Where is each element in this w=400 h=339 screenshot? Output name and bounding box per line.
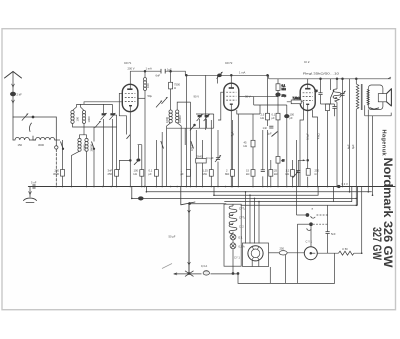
- heater resistor CF7-2: [229, 215, 237, 225]
- svg-text:kΩ: kΩ: [261, 116, 264, 120]
- wire col297 down: [296, 224, 298, 283]
- resistor box col327: [326, 104, 330, 111]
- svg-text:0,1 μF: 0,1 μF: [206, 156, 214, 160]
- svg-text:5nF: 5nF: [331, 232, 336, 236]
- heater resistor Cl2: [229, 224, 237, 234]
- svg-text:30 V: 30 V: [245, 95, 251, 99]
- svg-text:kΩ: kΩ: [134, 172, 137, 176]
- svg-text:36000: 36000: [89, 144, 93, 152]
- connector circle: [55, 146, 58, 149]
- wire col245: [245, 192, 247, 244]
- wire tube2 right leg: [237, 110, 241, 114]
- wire col202: [202, 140, 204, 187]
- selector row2: [297, 223, 309, 225]
- wire plugs feed: [297, 214, 306, 216]
- wire tube3 right leg: [313, 110, 318, 187]
- svg-text:50μ: 50μ: [148, 94, 153, 98]
- trimmer Ct3: [95, 121, 101, 128]
- heater box: [224, 204, 241, 266]
- wire col287: [286, 105, 288, 187]
- wire grid row y128: [167, 114, 214, 145]
- resistor box col292: [291, 170, 295, 177]
- wire right column: [55, 117, 57, 146]
- capacitor 2kF blob: [10, 92, 15, 96]
- sub bus 2: [214, 187, 318, 196]
- wire link y104: [77, 103, 113, 105]
- speaker return wire: [365, 105, 392, 116]
- wire coil bottoms link: [73, 123, 117, 127]
- transformer primary: [356, 84, 359, 109]
- resistor box 01: [276, 113, 280, 120]
- svg-text:100: 100: [75, 117, 79, 122]
- wire primary: [355, 79, 357, 206]
- resistor box cath: [306, 169, 310, 176]
- plug dot b: [310, 223, 313, 226]
- svg-text:C Y 1: C Y 1: [306, 240, 313, 244]
- resistor box col141: [140, 170, 144, 177]
- wire col156: [155, 140, 157, 187]
- wire col162: [161, 132, 163, 187]
- node junction: [32, 116, 34, 118]
- wire barretter out: [317, 252, 338, 254]
- svg-text:CF72: CF72: [225, 61, 233, 65]
- wire col296 down: [296, 187, 298, 216]
- switch S5: [331, 90, 335, 98]
- junction dots psu: [237, 273, 239, 275]
- svg-text:5 nF: 5 nF: [31, 181, 37, 185]
- svg-text:0,5μF: 0,5μF: [190, 144, 194, 151]
- svg-text:250: 250: [315, 169, 320, 173]
- svg-text:1,25: 1,25: [203, 169, 209, 173]
- rectifier pins: [252, 247, 259, 260]
- svg-text:Cl 2: Cl 2: [239, 225, 244, 229]
- svg-text:3000: 3000: [38, 143, 44, 147]
- resistor box col63: [61, 170, 65, 177]
- resistor box 1k horiz: [291, 100, 301, 104]
- svg-text:1 mA: 1 mA: [239, 71, 245, 75]
- wire col238: [237, 114, 239, 187]
- resistor box 45k mid: [251, 140, 255, 147]
- plug dot a: [306, 214, 309, 217]
- svg-text:MΩ: MΩ: [282, 87, 286, 91]
- wire zig regl: [336, 79, 338, 187]
- pot arrow on H2: [218, 74, 222, 77]
- wire lower coil bottoms: [72, 151, 87, 186]
- trimmer IF a: [156, 101, 162, 108]
- svg-text:1nF: 1nF: [263, 126, 268, 130]
- switch S6: [161, 141, 164, 149]
- svg-text:Cl 2: Cl 2: [304, 60, 310, 64]
- switch lever osc: [181, 187, 195, 205]
- wire col103: [103, 104, 105, 186]
- cathode bypass corner: [298, 160, 305, 186]
- electrolytic blob on sub bus 3: [138, 197, 143, 200]
- coil L2a: [78, 138, 81, 151]
- rectifier tube CY1: [248, 246, 263, 261]
- wire between coils: [29, 139, 35, 141]
- wire col311 to barretter: [310, 224, 312, 247]
- resistor box 2,5k: [266, 113, 270, 120]
- coil L2b: [85, 138, 88, 151]
- resistor horiz box: [196, 159, 207, 164]
- lamp E1: [230, 234, 236, 240]
- capacitor cath plates: [296, 171, 300, 173]
- speaker driver: [378, 94, 386, 102]
- svg-text:90 V: 90 V: [194, 95, 200, 99]
- resistor box 7500: [169, 82, 173, 89]
- wire bottom corner: [238, 253, 335, 283]
- capacitor 1nF: [269, 126, 273, 128]
- wire plug dashed a: [317, 214, 328, 216]
- wire tube2 g2 line: [241, 114, 261, 140]
- wire col292: [292, 160, 294, 187]
- svg-text:0,1: 0,1: [149, 169, 153, 173]
- svg-text:250: 250: [108, 172, 113, 176]
- switch S1: [61, 142, 64, 149]
- svg-text:4μF: 4μF: [351, 144, 355, 149]
- wire coil tops: [73, 104, 85, 110]
- svg-text:0,1μF: 0,1μF: [306, 133, 310, 140]
- capacitor 5nF psu: [326, 232, 330, 234]
- wire tube3 cathode: [307, 111, 309, 187]
- wire col190: [190, 102, 192, 186]
- coil L1b: [82, 110, 85, 123]
- capacitor 100pF blob: [285, 115, 290, 118]
- sub bus 3: [132, 187, 356, 199]
- svg-text:2μF: 2μF: [267, 132, 272, 136]
- trimmer cath: [293, 171, 299, 178]
- speaker cone: [387, 88, 392, 106]
- svg-text:Ω: Ω: [174, 86, 176, 90]
- svg-text:6,3 V: 6,3 V: [342, 182, 348, 186]
- resistor box col278 mid: [276, 157, 280, 164]
- capacitor blob 25u: [276, 93, 281, 96]
- svg-text:2,5: 2,5: [261, 113, 265, 117]
- rectifier socket box CY1: [243, 243, 269, 267]
- svg-text:1,2: 1,2: [286, 169, 290, 173]
- feedback loop: [117, 160, 131, 169]
- main ground bus: [28, 186, 395, 188]
- resistor box col253 low: [251, 170, 255, 177]
- speaker contact: [369, 108, 379, 110]
- svg-text:E 1: E 1: [239, 236, 244, 240]
- trimmer C ant: [22, 114, 28, 121]
- trimmer Ct2: [110, 113, 114, 115]
- wire tube1 right leg: [138, 97, 145, 99]
- wire coil row to switch: [56, 139, 61, 141]
- svg-text:kΩ: kΩ: [286, 172, 289, 176]
- svg-text:100: 100: [290, 113, 295, 117]
- sub bus 4: [225, 187, 352, 202]
- svg-text:pF: pF: [290, 116, 293, 120]
- mains lever faint: [162, 264, 172, 269]
- antenna: [5, 72, 22, 79]
- wire mains row: [174, 273, 238, 275]
- svg-text:0,1: 0,1: [282, 84, 286, 88]
- capacitor 0,1: [216, 158, 220, 160]
- svg-text:μF: μF: [181, 172, 185, 176]
- wire to barretter: [287, 252, 304, 254]
- wire col249: [249, 195, 251, 243]
- wire col342: [342, 79, 344, 187]
- capacitor c334: [332, 107, 336, 109]
- wire IF b: [177, 102, 190, 186]
- resistor box col232: [231, 170, 235, 177]
- wire col211: [210, 120, 212, 187]
- resistor zig regl: [333, 89, 341, 99]
- wire coil100: [144, 71, 146, 186]
- svg-text:100: 100: [146, 83, 150, 88]
- svg-text:μF: μF: [149, 172, 153, 176]
- svg-text:kΩ: kΩ: [246, 172, 249, 176]
- resistor box 01M: [276, 84, 280, 91]
- svg-text:0,3 A: 0,3 A: [201, 264, 207, 268]
- coil 3000: [33, 137, 56, 140]
- svg-text:1000: 1000: [87, 116, 91, 122]
- svg-text:100: 100: [134, 169, 139, 173]
- svg-text:0,2 A: 0,2 A: [239, 244, 245, 248]
- wire col253 low: [252, 147, 254, 187]
- trimmer Ct1: [102, 113, 106, 115]
- svg-text:Regl.35kΩ/50…10: Regl.35kΩ/50…10: [303, 72, 340, 76]
- svg-text:4μF: 4μF: [346, 144, 350, 149]
- wire col170: [167, 71, 171, 186]
- cap 3nF in bus: [33, 184, 35, 188]
- svg-text:327 GW: 327 GW: [370, 227, 383, 260]
- wire col372: [372, 116, 374, 195]
- pot wiper blob: [136, 159, 140, 162]
- heater resistor CF7-1: [229, 206, 237, 216]
- svg-text:45: 45: [244, 141, 247, 145]
- tube CF7 II: [224, 83, 239, 110]
- svg-text:7,5kΩ: 7,5kΩ: [293, 96, 300, 100]
- capacitor col262: [262, 130, 264, 187]
- junction dots on bus: [56, 186, 58, 188]
- svg-text:2 kF: 2 kF: [17, 93, 23, 97]
- svg-text:25μ: 25μ: [282, 94, 287, 98]
- svg-text:CF7₂: CF7₂: [239, 216, 245, 220]
- wire top row: [13, 116, 56, 118]
- wire tube2 g2 out: [239, 96, 254, 98]
- svg-text:Ω: Ω: [315, 172, 317, 176]
- resistor U50 zigzag: [339, 251, 354, 255]
- wire col216 cap col: [217, 130, 219, 187]
- wire tube2 top: [230, 75, 232, 83]
- wire col334: [328, 104, 335, 116]
- svg-text:6nF: 6nF: [156, 74, 161, 78]
- capacitor 6nF: [161, 69, 165, 74]
- wire H2b anode line right: [269, 77, 391, 79]
- svg-text:7μA: 7μA: [230, 131, 234, 136]
- wire rect out right: [269, 252, 280, 254]
- wire antenna lead: [12, 72, 14, 118]
- resistor box col188: [186, 170, 190, 177]
- svg-text:1 mA: 1 mA: [146, 67, 152, 71]
- wire lower coil tops: [80, 123, 87, 138]
- wire tube3 top: [307, 79, 309, 84]
- junction dots sub-bus: [146, 191, 148, 193]
- switch S4: [272, 132, 278, 137]
- wire osc coil top: [84, 102, 122, 105]
- heater line right of box: [241, 187, 358, 206]
- IF coil a: [169, 110, 172, 123]
- wire col278: [277, 97, 279, 187]
- svg-text:250: 250: [55, 169, 60, 173]
- wire col186: [185, 75, 187, 186]
- svg-text:15: 15: [246, 169, 249, 173]
- wire grid link: [112, 115, 116, 187]
- plug hook a: [311, 216, 315, 218]
- wire col196: [195, 130, 197, 187]
- sub bus 1: [146, 187, 371, 192]
- wire U50 to col361: [354, 187, 362, 254]
- svg-text:CF71: CF71: [124, 61, 132, 65]
- junction 6,3V: [338, 185, 341, 188]
- wire tube2 cathode: [230, 111, 232, 187]
- wire col112: [111, 104, 113, 186]
- svg-text:4 kΩ: 4 kΩ: [317, 133, 321, 139]
- wire joint 104: [321, 103, 331, 105]
- wire tube3 left leg: [300, 110, 303, 187]
- wire heater chain: [232, 204, 234, 234]
- svg-text:CF7₁: CF7₁: [239, 207, 245, 211]
- wire H2 anode line: [206, 75, 269, 130]
- svg-text:2μ: 2μ: [315, 89, 318, 93]
- coil L1a: [71, 110, 74, 123]
- IF coil b: [176, 110, 179, 123]
- tube2 grid side lead: [218, 92, 224, 120]
- svg-text:3nF: 3nF: [108, 169, 113, 173]
- switch S2: [92, 142, 95, 149]
- ground: [24, 198, 37, 200]
- svg-text:CY 1: CY 1: [234, 256, 240, 260]
- speaker frame: [368, 85, 383, 110]
- svg-text:Hagenuk: Hagenuk: [381, 130, 387, 157]
- tube Cl2: [300, 84, 315, 110]
- coil 150: [13, 137, 29, 140]
- fuse 03A blob: [203, 271, 209, 275]
- trimmer IF b: [162, 97, 168, 104]
- lamp E2: [230, 243, 236, 249]
- svg-text:200 V: 200 V: [128, 67, 135, 71]
- capacitor plates col262: [261, 170, 265, 172]
- svg-text:0,1: 0,1: [272, 113, 276, 117]
- svg-text:2640: 2640: [197, 154, 203, 158]
- coil 100 anode: [143, 78, 146, 91]
- svg-text:1000: 1000: [165, 117, 169, 123]
- fuse oval 250: [279, 251, 287, 255]
- capacitor c320: [318, 93, 322, 95]
- svg-text:3000: 3000: [53, 172, 59, 176]
- switch wave switch: [30, 123, 32, 132]
- switch S7: [191, 141, 194, 149]
- svg-text:10000: 10000: [178, 115, 182, 123]
- wire col259: [258, 202, 260, 244]
- svg-text:U 50: U 50: [342, 247, 348, 251]
- svg-text:kΩ: kΩ: [244, 144, 247, 148]
- svg-text:7500: 7500: [174, 83, 180, 87]
- wire col330: [330, 79, 332, 104]
- wire col254: [254, 198, 256, 243]
- transformer core: [361, 84, 363, 110]
- svg-text:25: 25: [274, 169, 277, 173]
- wire screen row: [254, 96, 287, 114]
- wire col141: [141, 145, 143, 187]
- wire col349: [349, 79, 351, 192]
- wire lamps: [232, 240, 234, 274]
- wire col232: [232, 120, 234, 187]
- switch S3: [190, 125, 195, 131]
- wire tube1 cathode down: [129, 112, 131, 187]
- wire col368: [367, 110, 369, 192]
- wire rect to box bottom: [252, 261, 259, 267]
- switch contact col130: [127, 135, 131, 139]
- mains arrow end: [174, 273, 177, 275]
- wire col270 low: [270, 160, 272, 187]
- wire box bottom drop: [270, 255, 285, 283]
- wire col267: [267, 75, 269, 186]
- barretter CY1: [304, 247, 317, 260]
- wire cap psu: [327, 205, 329, 253]
- tube CF7 I: [122, 84, 138, 111]
- wire dashed to bus: [55, 149, 57, 186]
- wire col94: [93, 127, 95, 187]
- wire col296: [296, 140, 298, 187]
- plug hook b: [307, 228, 311, 230]
- wire top line H1: [130, 71, 205, 75]
- heater feed line: [190, 203, 226, 205]
- tube1 grid side lead: [119, 93, 126, 134]
- ground lead: [29, 187, 31, 198]
- wire col278 top: [277, 79, 279, 93]
- wire 50uF electrolytic: [188, 204, 190, 274]
- speaker coil: [367, 90, 369, 105]
- svg-text:250: 250: [280, 247, 285, 251]
- resistor box col156: [154, 170, 158, 177]
- wire selector dashed: [313, 223, 328, 225]
- wire col63: [62, 140, 64, 187]
- svg-text:150: 150: [18, 143, 23, 147]
- svg-text:50 μF: 50 μF: [169, 235, 176, 239]
- svg-text:MΩ: MΩ: [203, 172, 207, 176]
- trimmer Ct4: [198, 115, 202, 117]
- resistor box col270: [269, 170, 273, 177]
- svg-text:kΩ: kΩ: [274, 172, 277, 176]
- trimmer Ct5: [205, 115, 209, 117]
- svg-text:MΩ: MΩ: [225, 172, 229, 176]
- resistor box col116: [115, 170, 119, 177]
- trimmer cap c342: [340, 94, 344, 96]
- svg-text:μF: μF: [272, 116, 276, 120]
- wire col320: [320, 79, 322, 104]
- svg-text:45: 45: [282, 159, 285, 163]
- wire col327 low: [327, 111, 329, 187]
- svg-text:3000: 3000: [82, 144, 86, 150]
- wire grid tube3: [287, 102, 304, 110]
- resistor box col211: [209, 170, 213, 177]
- switch X mains: [185, 271, 194, 277]
- wire tube1 top: [129, 71, 131, 84]
